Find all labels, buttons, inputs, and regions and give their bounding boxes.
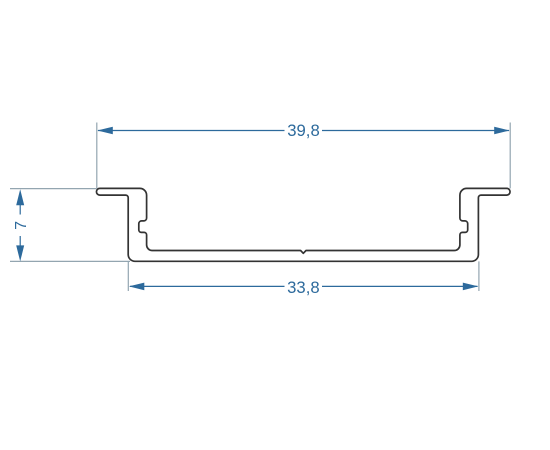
extension line, dim 33,8 right (x=478.9) bbox=[478, 261, 480, 291]
svg-text:7: 7 bbox=[13, 221, 30, 230]
dimension line 33,8 (y=286.4) bbox=[130, 285, 285, 287]
profile outline (aluminium channel cross-section) bbox=[96, 188, 510, 261]
arrow 7 down bbox=[16, 245, 24, 261]
arrow 39,8 right bbox=[494, 127, 510, 135]
arrow 7 up bbox=[16, 189, 24, 205]
dimension line 7 (x=20.2) bbox=[19, 205, 21, 215]
extension line, dim 39,8 left (x=96.8) bbox=[96, 123, 98, 189]
arrow 39,8 left bbox=[97, 127, 113, 135]
arrow 33,8 left bbox=[129, 283, 145, 291]
svg-text:39,8: 39,8 bbox=[287, 121, 319, 140]
extension line, dim 7 top (y=188.6) bbox=[10, 188, 97, 190]
extension line, dim 39,8 right (x=510.2) bbox=[509, 123, 511, 189]
extension line, dim 33,8 left (x=128.3) bbox=[127, 261, 129, 291]
extension line, dim 7 bottom (y=261.4) bbox=[10, 260, 130, 262]
arrow 33,8 right bbox=[463, 283, 479, 291]
svg-text:33,8: 33,8 bbox=[287, 278, 319, 297]
dimension line 39,8 (y=130.5) bbox=[98, 130, 285, 132]
